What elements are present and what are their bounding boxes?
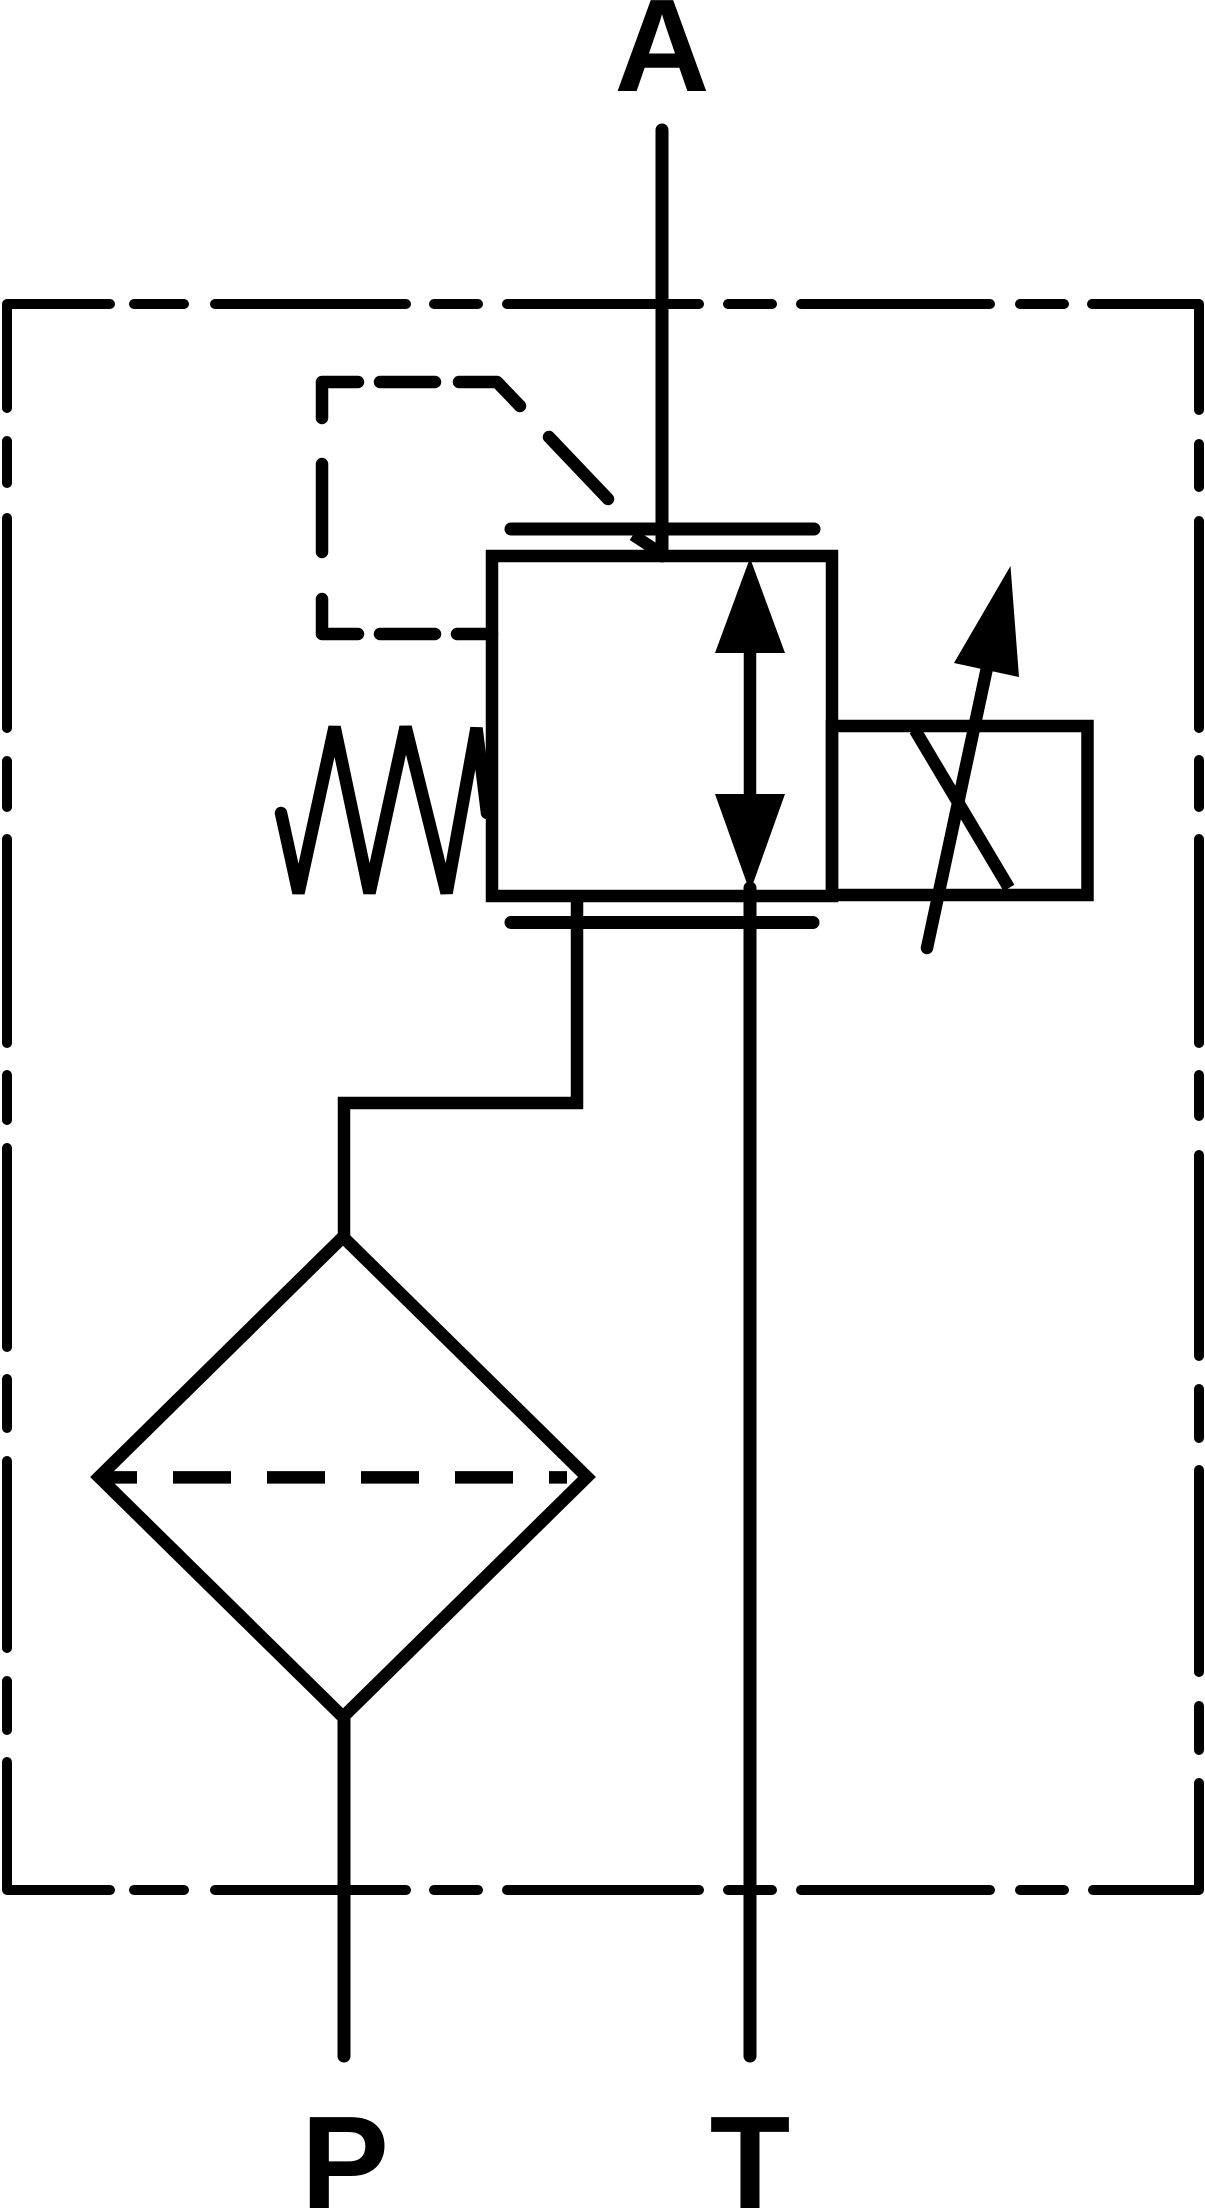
adjustment arrow head — [954, 566, 1019, 677]
svg-text:T: T — [710, 2089, 791, 2208]
adjustment arrow shaft — [927, 607, 1000, 948]
valve flow arrow down head — [715, 794, 785, 892]
filter element dashed line — [99, 1471, 567, 1484]
enclosure border left edge (dash-dot) — [7, 441, 110, 1890]
valve flow arrow shaft — [744, 648, 757, 800]
wire valve bottom jog to filter — [344, 893, 577, 1240]
valve body V1 (pressure reducing valve square) — [492, 556, 832, 896]
bottom connection bar below valve — [511, 916, 813, 929]
spring (left of valve body) — [281, 727, 487, 893]
wire A to valve top — [656, 130, 669, 556]
enclosure border bottom edge (dash-dot) — [134, 1885, 1064, 1895]
wire filter to port P — [338, 1715, 351, 2056]
pilot line dashed box bottom edge to valve — [380, 628, 492, 641]
solenoid diagonal stroke — [915, 730, 1009, 888]
pilot line arrowhead barb at valve top port — [633, 535, 656, 550]
valve flow arrow up head — [715, 558, 785, 653]
pilot line dashed box top and left edges — [322, 382, 435, 634]
enclosure border top edge (dash-dot) — [7, 304, 1199, 410]
enclosure border right edge (dash-dot) — [1093, 444, 1199, 1890]
solenoid / adjustment box S1 — [832, 726, 1088, 895]
filter F1 (diamond) — [99, 1237, 587, 1717]
wire valve to port T — [744, 888, 757, 2056]
svg-text:A: A — [614, 0, 709, 119]
svg-text:P: P — [301, 2089, 389, 2208]
top connection bar above valve — [511, 523, 814, 536]
pilot line dashed diagonal to valve top — [459, 382, 608, 499]
